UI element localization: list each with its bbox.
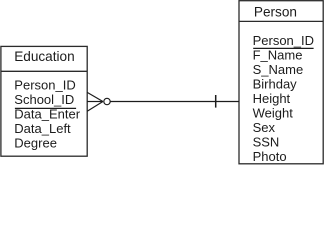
entity Person header divider [239, 20, 323, 22]
wire relationship main line [104, 101, 239, 103]
entity Education header divider [1, 70, 87, 72]
svg-text:Weight: Weight [253, 105, 294, 120]
optionality circle [104, 98, 110, 104]
svg-text:Photo: Photo [253, 149, 287, 164]
svg-text:Person_ID: Person_ID [14, 78, 75, 93]
svg-text:Height: Height [253, 91, 291, 106]
svg-text:Data_Left: Data_Left [14, 121, 71, 136]
entity Person box [239, 1, 323, 164]
svg-text:Sex: Sex [253, 120, 276, 135]
svg-text:SSN: SSN [253, 134, 280, 149]
key underline School_ID [15, 107, 76, 109]
crow's foot prong bottom [87, 102, 103, 112]
entity Education box [1, 46, 87, 156]
svg-text:Person: Person [254, 4, 297, 19]
svg-text:Education: Education [14, 49, 74, 64]
svg-text:F_Name: F_Name [253, 47, 303, 62]
svg-text:School_ID: School_ID [14, 92, 74, 107]
crow's foot prong middle [87, 101, 103, 103]
svg-text:Birhday: Birhday [253, 76, 298, 91]
svg-text:S_Name: S_Name [253, 62, 304, 77]
crow's foot prong top [87, 92, 103, 101]
svg-text:Person_ID: Person_ID [253, 33, 314, 48]
cardinality one tick [215, 95, 217, 108]
svg-text:Data_Enter: Data_Enter [14, 107, 80, 122]
svg-text:Degree: Degree [14, 136, 57, 151]
key underline Person_ID [253, 47, 313, 49]
